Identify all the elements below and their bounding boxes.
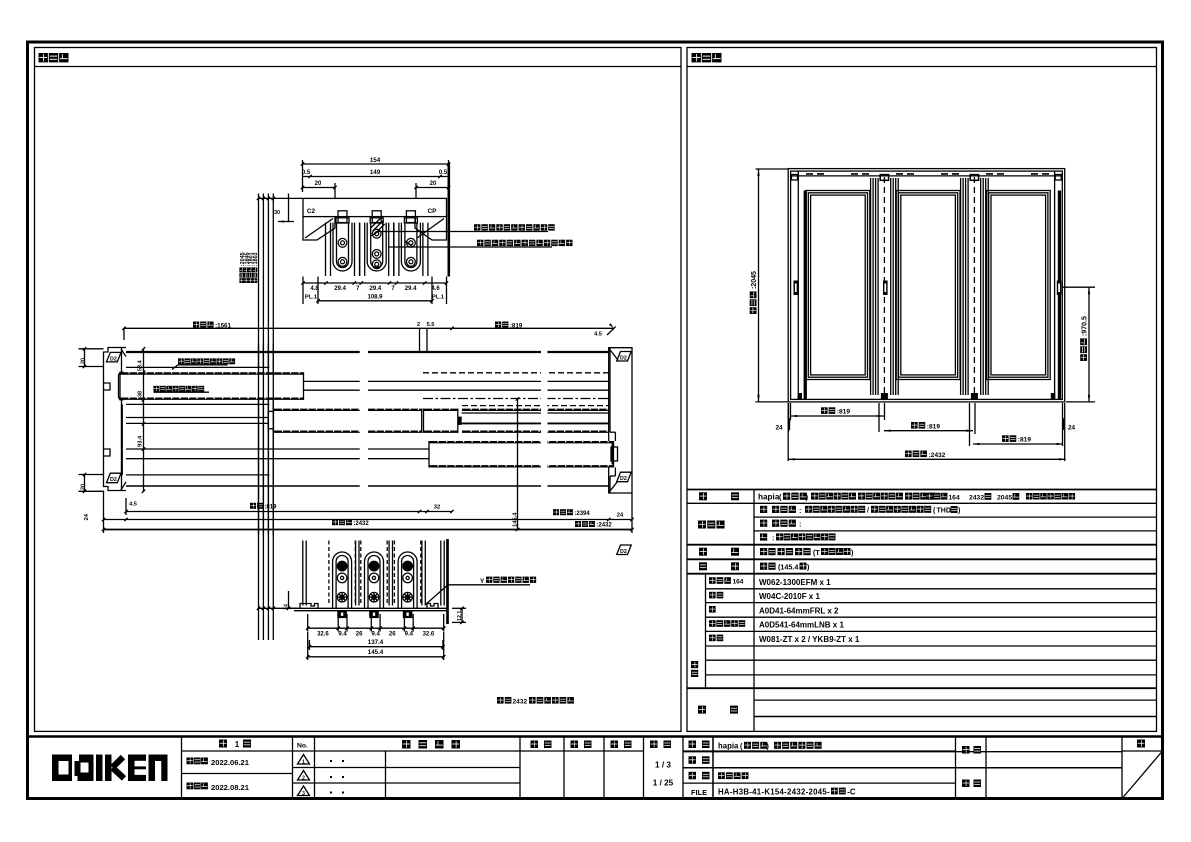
svg-text:1: 1 (235, 740, 240, 749)
svg-text:CP: CP (427, 208, 437, 215)
svg-text:9.4: 9.4 (405, 632, 414, 638)
svg-text:12.1: 12.1 (457, 611, 463, 621)
svg-text:0.5: 0.5 (302, 170, 311, 176)
svg-text:2045: 2045 (997, 495, 1012, 502)
svg-text:29.4: 29.4 (370, 286, 382, 292)
svg-text:hapia: hapia (718, 742, 739, 751)
svg-text:38: 38 (138, 391, 144, 397)
svg-text:2: 2 (302, 776, 305, 782)
svg-text:4.6: 4.6 (431, 286, 440, 292)
svg-text::819: :819 (264, 504, 277, 510)
svg-text:149: 149 (370, 169, 381, 176)
svg-text:3: 3 (302, 791, 305, 797)
svg-text:A0D541-64mmLNB x 1: A0D541-64mmLNB x 1 (759, 621, 844, 630)
svg-text:32: 32 (434, 505, 440, 511)
svg-text:5.5: 5.5 (426, 322, 435, 328)
svg-text::2045: :2045 (751, 271, 758, 289)
svg-text:(145.4: (145.4 (778, 563, 798, 572)
svg-text:/: / (867, 508, 869, 515)
svg-text:24: 24 (84, 513, 90, 520)
svg-text::819: :819 (927, 423, 941, 430)
svg-text:2432: 2432 (513, 698, 528, 705)
svg-text:HA-H3B-41-K154-2432-2045-: HA-H3B-41-K154-2432-2045- (718, 788, 830, 797)
svg-text:D2: D2 (620, 476, 627, 482)
svg-text:1 / 25: 1 / 25 (653, 779, 674, 788)
svg-text:hapia: hapia (758, 493, 780, 502)
svg-text:1 / 3: 1 / 3 (655, 761, 671, 770)
svg-text::819: :819 (837, 409, 851, 416)
svg-text:4.8: 4.8 (310, 286, 319, 292)
svg-text:145.4: 145.4 (368, 649, 384, 656)
svg-text:164: 164 (948, 495, 960, 502)
svg-text::819: :819 (510, 322, 523, 329)
svg-text:2: 2 (417, 322, 420, 328)
svg-text:14: 14 (284, 604, 290, 610)
svg-text:58.4: 58.4 (138, 359, 144, 371)
svg-text:FILE: FILE (691, 788, 707, 797)
svg-text::1802: :1802 (253, 252, 259, 266)
svg-text:D2: D2 (110, 356, 117, 362)
svg-text:2432: 2432 (969, 495, 984, 502)
svg-text:108.9: 108.9 (367, 295, 383, 301)
svg-text:9.4: 9.4 (338, 632, 347, 638)
svg-text:24: 24 (775, 425, 783, 432)
svg-text:32.6: 32.6 (423, 632, 435, 638)
svg-text:): ) (958, 508, 960, 515)
svg-text:137.4: 137.4 (368, 639, 384, 646)
svg-text:2022.06.21: 2022.06.21 (211, 758, 250, 767)
svg-text:20: 20 (430, 181, 437, 187)
svg-text::2432: :2432 (928, 452, 945, 459)
svg-text:20: 20 (315, 181, 322, 187)
svg-text:D2: D2 (620, 356, 627, 362)
svg-text:26: 26 (356, 632, 363, 638)
svg-text::2432: :2432 (353, 521, 369, 527)
svg-text::: : (799, 520, 801, 529)
svg-text:20: 20 (81, 484, 87, 490)
svg-text:D2: D2 (620, 549, 627, 555)
svg-text:30: 30 (274, 210, 280, 216)
svg-text:PL.1: PL.1 (305, 295, 318, 301)
svg-text::970.5: :970.5 (1082, 316, 1089, 336)
svg-text::: : (772, 534, 774, 543)
svg-text:W04C-2010F x 1: W04C-2010F x 1 (759, 592, 820, 601)
svg-text:2022.08.21: 2022.08.21 (211, 783, 250, 792)
svg-text:-C: -C (847, 788, 856, 797)
svg-text:W062-1300EFM x 1: W062-1300EFM x 1 (759, 578, 831, 587)
svg-text:4.5: 4.5 (594, 332, 603, 338)
svg-text::2394: :2394 (574, 511, 590, 517)
svg-text:C2: C2 (307, 208, 316, 215)
svg-text:4.5: 4.5 (129, 502, 137, 508)
svg-text:No.: No. (297, 743, 308, 750)
svg-text:24: 24 (617, 513, 624, 519)
svg-text:29.4: 29.4 (405, 286, 417, 292)
svg-text:24: 24 (1068, 425, 1076, 432)
svg-text:9.4: 9.4 (372, 632, 381, 638)
svg-text::1561: :1561 (215, 322, 231, 329)
svg-text:W081-ZT x 2 / YKB9-ZT x 1: W081-ZT x 2 / YKB9-ZT x 1 (759, 635, 860, 644)
svg-text:D2: D2 (110, 477, 117, 483)
svg-text:164: 164 (732, 579, 743, 586)
svg-text::819: :819 (1018, 437, 1032, 444)
svg-text:32.6: 32.6 (317, 632, 329, 638)
svg-text:(T: (T (813, 548, 820, 557)
svg-text:1: 1 (302, 760, 305, 766)
svg-text::: : (799, 506, 801, 515)
svg-text:26: 26 (389, 632, 396, 638)
svg-text:Y: Y (480, 578, 485, 585)
svg-text:0.5: 0.5 (439, 170, 448, 176)
svg-text::2432: :2432 (596, 523, 612, 529)
svg-text:A0D41-64mmFRL x 2: A0D41-64mmFRL x 2 (759, 607, 839, 616)
svg-text:93.4: 93.4 (138, 435, 144, 447)
svg-text:20: 20 (81, 358, 87, 364)
svg-text:29.4: 29.4 (334, 286, 346, 292)
svg-text:154: 154 (370, 157, 381, 164)
svg-text:THD: THD (937, 508, 951, 515)
